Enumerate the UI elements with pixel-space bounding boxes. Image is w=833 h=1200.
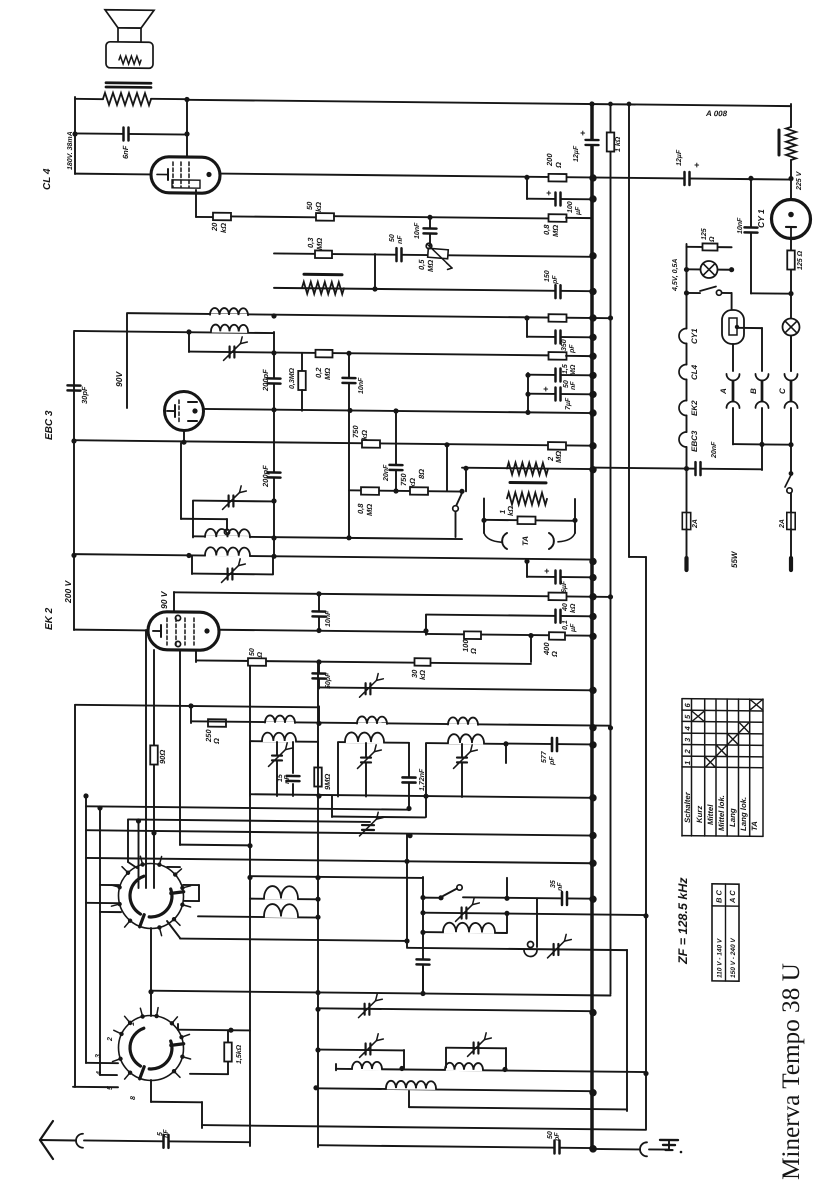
resistor 50k <box>316 213 334 221</box>
resistor 750k <box>362 440 380 448</box>
resistor 1.5k <box>227 1030 229 1042</box>
svg-text:4: 4 <box>683 725 692 731</box>
wire left col <box>73 332 75 630</box>
svg-text:0,3MΩ: 0,3MΩ <box>289 367 296 389</box>
antenna <box>40 1121 53 1140</box>
capacitor 0.1uF <box>425 615 427 635</box>
svg-text:kΩ: kΩ <box>418 670 427 680</box>
wire wafer right <box>183 884 199 886</box>
svg-text:Mittel: Mittel <box>706 804 715 825</box>
resistor <box>549 314 567 322</box>
svg-text:C: C <box>778 388 787 394</box>
node <box>316 659 321 664</box>
fuse 2A <box>787 512 795 529</box>
svg-text:1,5kΩ: 1,5kΩ <box>236 1044 243 1064</box>
capacitor 20nF heater <box>589 466 596 473</box>
wire <box>408 1091 410 1107</box>
capacitor 50nF stub <box>527 373 529 413</box>
resistor 0.2M <box>316 350 333 358</box>
node <box>184 97 189 102</box>
table Schalter <box>681 699 683 836</box>
resistor 0.3M anode <box>301 353 303 371</box>
svg-text:A: A <box>719 388 728 395</box>
svg-text:200pF: 200pF <box>261 465 270 488</box>
secondary 2 <box>337 742 339 796</box>
ant line <box>40 1139 76 1141</box>
wire v3b <box>626 950 628 1111</box>
wire <box>178 1029 250 1032</box>
wire <box>193 536 462 539</box>
wire cathode <box>195 650 197 662</box>
svg-text:12µF: 12µF <box>573 145 580 162</box>
wire <box>187 100 791 106</box>
svg-text:B C: B C <box>715 889 724 903</box>
svg-text:Lang lok.: Lang lok. <box>739 797 748 831</box>
capacitor 35nF <box>463 897 592 898</box>
svg-text:90Ω: 90Ω <box>158 750 167 764</box>
ballast tube C1 <box>731 293 733 310</box>
svg-text:A C: A C <box>728 890 737 904</box>
capacitor 100uF <box>526 177 528 199</box>
wire <box>75 705 319 708</box>
capacitor <box>420 960 426 964</box>
svg-text:1 kΩ: 1 kΩ <box>615 136 622 152</box>
svg-text:Mittel lok.: Mittel lok. <box>717 795 726 831</box>
svg-text:6nF: 6nF <box>121 145 130 159</box>
coil <box>198 916 318 917</box>
svg-text:50: 50 <box>563 380 570 388</box>
svg-text:nF: nF <box>397 235 404 244</box>
wire <box>318 1049 404 1052</box>
svg-text:0,8: 0,8 <box>356 503 365 514</box>
svg-text:CY 1: CY 1 <box>756 209 766 228</box>
svg-text:+: + <box>543 384 549 394</box>
svg-text:100: 100 <box>567 201 574 213</box>
svg-text:pF: pF <box>549 756 556 766</box>
wire 200V line <box>74 554 592 559</box>
svg-text:50: 50 <box>249 648 256 656</box>
wire sec bottom <box>250 794 592 798</box>
wire <box>506 913 508 933</box>
wire ground <box>592 1148 640 1151</box>
svg-text:+: + <box>546 188 552 198</box>
node <box>186 329 191 334</box>
svg-text:7µF: 7µF <box>565 397 572 410</box>
wire <box>374 254 376 289</box>
svg-text:Minerva Tempo 38 U: Minerva Tempo 38 U <box>778 963 805 1180</box>
svg-text:Ω: Ω <box>709 236 716 243</box>
svg-text:2: 2 <box>683 748 692 754</box>
svg-text:750: 750 <box>351 425 360 438</box>
connector B <box>756 374 769 381</box>
heater chain <box>686 247 688 329</box>
capacitor 577pF <box>506 743 592 746</box>
wire <box>186 99 188 158</box>
svg-text:200 V: 200 V <box>63 579 73 604</box>
svg-text:MΩ: MΩ <box>554 451 563 463</box>
svg-text:2A: 2A <box>779 519 786 529</box>
wire <box>150 1080 152 1102</box>
wire anode EBC3 <box>203 409 592 413</box>
wire <box>406 834 408 947</box>
svg-text:90V: 90V <box>114 370 124 387</box>
svg-text:µF: µF <box>575 206 582 216</box>
svg-text:180V. 38mA: 180V. 38mA <box>67 131 74 170</box>
trimmer2 <box>446 1047 506 1050</box>
wire v3 <box>628 104 630 557</box>
wire <box>790 104 792 127</box>
svg-text:55W: 55W <box>730 550 739 568</box>
wire grid <box>74 629 148 632</box>
wire <box>138 821 140 888</box>
wire <box>202 1125 646 1130</box>
svg-text:MΩ: MΩ <box>365 504 374 516</box>
wire EK2 pin2 <box>179 650 181 845</box>
wire anode <box>220 174 791 180</box>
capacitor 20nF <box>395 411 397 491</box>
svg-text:10nF: 10nF <box>737 217 744 234</box>
wire grid col <box>145 630 147 888</box>
svg-text:+: + <box>694 160 700 170</box>
wire tone line <box>462 468 592 469</box>
big coil <box>316 1088 592 1091</box>
capacitor 5nF <box>84 1140 250 1142</box>
node <box>372 286 377 291</box>
wire <box>335 1064 337 1070</box>
IFT2 primary <box>206 536 249 539</box>
coil <box>250 898 318 901</box>
terminal <box>684 558 688 570</box>
wire <box>126 314 128 408</box>
resistor primary winding <box>103 93 151 106</box>
wire <box>790 336 792 371</box>
fuse 2A left <box>686 469 688 513</box>
wire trimmer line <box>319 687 592 690</box>
svg-text:10nF: 10nF <box>358 377 365 394</box>
wire <box>86 858 592 863</box>
svg-text:TA: TA <box>750 821 759 831</box>
svg-text:50: 50 <box>389 234 396 242</box>
IFT2 secondary <box>206 554 249 557</box>
capacitor 12uF bus <box>589 141 595 145</box>
coil row <box>336 1069 646 1072</box>
trimmer <box>366 1043 371 1054</box>
svg-text:8: 8 <box>130 1096 137 1100</box>
svg-text:50pF: 50pF <box>325 672 332 689</box>
secondary 3 <box>425 744 427 818</box>
svg-text:20nF: 20nF <box>383 464 390 482</box>
wire <box>99 808 101 1075</box>
wire <box>74 97 76 174</box>
switch mains <box>789 471 794 476</box>
svg-text:TA: TA <box>521 536 530 546</box>
svg-text:9MΩ: 9MΩ <box>323 774 332 791</box>
resistor 0.8M <box>549 214 567 222</box>
svg-text:40: 40 <box>562 603 569 612</box>
wire <box>331 796 333 817</box>
IF coil 2 <box>212 330 247 333</box>
svg-text:pF: pF <box>554 1132 561 1142</box>
svg-text:3: 3 <box>95 1054 102 1058</box>
svg-text:6µF: 6µF <box>561 580 568 593</box>
svg-text:0,2: 0,2 <box>314 367 323 378</box>
svg-text:Ω: Ω <box>554 162 563 169</box>
wire <box>180 844 250 847</box>
svg-text:12µF: 12µF <box>676 149 683 166</box>
wire <box>151 991 611 996</box>
svg-text:kΩ: kΩ <box>314 202 323 212</box>
switch tone <box>459 489 464 494</box>
svg-text:kΩ: kΩ <box>360 430 369 440</box>
svg-text:Ω: Ω <box>469 648 478 655</box>
wire <box>250 876 423 878</box>
svg-text:nF: nF <box>163 1129 170 1138</box>
resistor 40k <box>549 593 567 601</box>
wire <box>446 445 448 491</box>
svg-text:20: 20 <box>210 222 219 232</box>
svg-text:Ω: Ω <box>550 651 559 658</box>
svg-text:MΩ: MΩ <box>551 225 560 237</box>
terminal <box>789 558 793 570</box>
resistor 90 <box>150 745 158 764</box>
svg-text:pF: pF <box>569 344 576 354</box>
svg-text:200: 200 <box>545 153 554 167</box>
table voltages <box>712 884 739 981</box>
svg-text:kΩ: kΩ <box>570 603 577 613</box>
svg-text:20nF: 20nF <box>711 441 718 459</box>
svg-text:+: + <box>580 128 586 138</box>
switch wafer S2 <box>119 1015 184 1081</box>
svg-text:CL4: CL4 <box>690 364 699 380</box>
wire trim row <box>423 913 646 915</box>
wire <box>150 928 152 1016</box>
trimmer IFT2 <box>191 555 193 574</box>
wire <box>536 898 538 947</box>
IF coil 1 <box>211 314 247 317</box>
svg-text:nF: nF <box>284 775 291 784</box>
svg-text:+: + <box>544 566 550 576</box>
wire <box>506 878 508 899</box>
svg-text:110 V - 140 V: 110 V - 140 V <box>717 938 724 978</box>
svg-text:577: 577 <box>541 750 548 763</box>
svg-text:0,1: 0,1 <box>562 620 569 630</box>
svg-text:10nF: 10nF <box>325 610 332 627</box>
svg-text:225 V: 225 V <box>796 170 803 191</box>
svg-text:750: 750 <box>399 473 408 486</box>
wire cathode <box>195 190 197 217</box>
resistor 30k <box>415 658 431 666</box>
wire <box>86 830 592 835</box>
switch <box>684 290 689 295</box>
svg-text:pF: pF <box>552 275 559 285</box>
svg-text:MΩ: MΩ <box>426 260 435 272</box>
resistor 125 <box>790 237 792 250</box>
wire col <box>317 662 319 1147</box>
svg-text:MΩ: MΩ <box>315 238 324 250</box>
trimmer <box>462 907 467 918</box>
trimmer <box>366 683 371 694</box>
wire <box>75 98 103 100</box>
node <box>444 442 449 447</box>
capacitor 350pF <box>526 318 528 337</box>
resistor 1.5M <box>549 352 567 360</box>
svg-text:B: B <box>749 388 758 394</box>
resistor 20k <box>213 213 231 221</box>
wire coil2 line <box>74 331 274 333</box>
svg-text:1,72nF: 1,72nF <box>419 768 426 791</box>
osc line <box>407 948 627 950</box>
wire 100/400 <box>426 634 592 636</box>
wire pot line <box>274 253 592 256</box>
svg-text:150: 150 <box>544 270 551 282</box>
wire <box>183 430 185 442</box>
wire zigzag line <box>274 288 592 291</box>
wire <box>422 877 424 995</box>
svg-text:kΩ: kΩ <box>408 478 417 488</box>
svg-text:200pF: 200pF <box>261 369 270 392</box>
svg-text:125: 125 <box>701 228 708 240</box>
svg-text:2A: 2A <box>692 519 699 529</box>
svg-text:15: 15 <box>277 774 284 782</box>
TA jack <box>484 533 501 542</box>
column 274 <box>273 332 275 556</box>
svg-text:90 V: 90 V <box>159 590 169 609</box>
capacitor 150pF <box>556 289 560 295</box>
wire wafer left <box>100 884 119 886</box>
svg-text:4,5V, 0,5A: 4,5V, 0,5A <box>672 259 679 293</box>
resistor 750k <box>410 487 428 495</box>
svg-text:EK 2: EK 2 <box>44 607 55 630</box>
svg-text:0,5: 0,5 <box>417 259 426 270</box>
svg-text:0,3: 0,3 <box>306 237 315 248</box>
svg-text:Kurz: Kurz <box>695 806 704 824</box>
svg-text:A 008: A 008 <box>705 109 728 118</box>
wire EK2 pin <box>153 650 155 888</box>
capacitor 10nF <box>348 353 350 537</box>
svg-text:EK2: EK2 <box>690 400 699 416</box>
wire bottom <box>318 1145 592 1148</box>
tone pot <box>507 463 548 475</box>
svg-text:50: 50 <box>547 1131 554 1139</box>
resistor 50 <box>248 658 266 666</box>
capacitor 50nF <box>397 252 401 258</box>
secondary 1 <box>249 742 251 796</box>
svg-text:ZF = 128.5 kHz: ZF = 128.5 kHz <box>676 877 690 965</box>
MW coil <box>423 931 507 934</box>
rectifier CY1 <box>772 199 811 238</box>
svg-text:kΩ: kΩ <box>219 223 228 233</box>
switch <box>420 895 425 900</box>
svg-text:CL 4: CL 4 <box>42 168 53 190</box>
svg-text:1: 1 <box>683 761 692 765</box>
svg-text:µF: µF <box>570 623 577 633</box>
wire grid <box>75 173 151 176</box>
wire <box>73 1086 118 1088</box>
capacitor 50pF <box>318 662 320 689</box>
capacitor 30pF <box>71 386 77 390</box>
osc coil row <box>191 721 611 725</box>
main bus <box>590 104 594 1150</box>
wire anode <box>219 630 426 632</box>
wire <box>167 921 180 938</box>
trimmer <box>230 346 235 357</box>
svg-text:kΩ: kΩ <box>506 506 515 516</box>
pot 0.5M <box>428 248 449 259</box>
trimmer prim <box>192 501 194 537</box>
node <box>524 175 529 180</box>
wire 0.8M line <box>349 490 462 491</box>
svg-text:MΩ: MΩ <box>323 368 332 380</box>
node <box>788 291 793 296</box>
svg-text:35: 35 <box>550 880 557 888</box>
svg-text:Ω: Ω <box>212 738 221 745</box>
svg-text:0,8: 0,8 <box>542 224 551 235</box>
svg-text:Schalter: Schalter <box>683 791 692 823</box>
wire avc <box>74 440 592 445</box>
resistor 2M <box>548 442 566 450</box>
trimmer <box>365 1004 370 1015</box>
svg-text:EBC3: EBC3 <box>690 430 699 452</box>
transformer core <box>106 81 151 84</box>
wire <box>167 866 180 868</box>
svg-text:CY1: CY1 <box>690 328 699 344</box>
node <box>503 741 508 746</box>
node <box>788 176 793 181</box>
svg-text:350: 350 <box>561 339 568 351</box>
node <box>271 313 276 318</box>
svg-text:2: 2 <box>107 1037 114 1042</box>
resistor 0.8M <box>361 487 379 495</box>
wire 0.2M line <box>189 352 549 356</box>
capacitor 20nF <box>592 468 762 470</box>
wire coil1 line <box>127 313 611 318</box>
resistor 200 <box>549 174 567 182</box>
wire screen <box>173 592 175 612</box>
wire osc2 <box>318 1008 592 1011</box>
capacitor 6nF <box>75 133 187 134</box>
svg-text:50: 50 <box>305 201 314 210</box>
resistor 250 <box>208 719 226 727</box>
svg-text:Lang: Lang <box>728 808 737 827</box>
lamp <box>783 318 800 335</box>
svg-text:EBC 3: EBC 3 <box>44 410 55 440</box>
wire <box>465 468 467 491</box>
resistor heater dropper <box>786 127 796 160</box>
svg-text:125 Ω: 125 Ω <box>797 250 804 270</box>
svg-text:10nF: 10nF <box>414 222 421 239</box>
wire <box>128 819 370 822</box>
svg-text:30pF: 30pF <box>80 386 89 404</box>
svg-text:Ω: Ω <box>257 651 264 658</box>
wire <box>86 806 409 809</box>
capacitor 10nF <box>429 217 431 246</box>
volume pot <box>304 273 342 276</box>
ground <box>668 1140 670 1150</box>
resistor 0.3M <box>315 250 332 258</box>
capacitor 1.72nF <box>408 743 410 809</box>
tap wire <box>180 443 182 519</box>
capacitor 7uF <box>528 393 592 396</box>
resistor 1k <box>607 132 615 151</box>
node <box>528 633 533 638</box>
wire <box>190 1073 228 1075</box>
dial lamp circuit <box>686 244 688 247</box>
svg-text:nF: nF <box>557 882 564 891</box>
wire v2 <box>610 104 612 994</box>
switch wafer S1 <box>119 863 184 929</box>
svg-text:1,5: 1,5 <box>562 364 569 374</box>
resistor 9M <box>317 741 319 767</box>
